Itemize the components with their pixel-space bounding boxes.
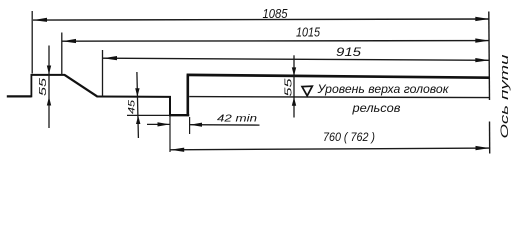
ramp [65,75,97,96]
dim 42 min left arrow [147,123,170,125]
svg-text:Уровень верха головок: Уровень верха головок [316,84,449,96]
svg-text:рельсов: рельсов [351,103,400,115]
dim 55 right vertical [293,55,295,117]
baseline middle segment [97,96,172,98]
baseline left segment [7,95,32,97]
dim 45 vertical [137,72,139,138]
dim line 1085 [33,19,489,20]
svg-text:42 min: 42 min [217,113,257,125]
svg-text:1015: 1015 [296,26,320,40]
dim line 915 [103,58,489,60]
svg-text:45: 45 [127,99,137,114]
svg-text:760 ( 762 ): 760 ( 762 ) [323,130,375,144]
svg-text:Ось пути: Ось пути [499,55,511,139]
witness line 45 [127,114,170,116]
svg-text:55: 55 [283,78,295,96]
svg-text:55: 55 [37,78,49,96]
axis line lower [489,122,491,154]
notch left edge [169,96,171,116]
witness line 42 min right [189,117,191,134]
step left edge [30,74,32,97]
rail head level line [189,97,489,98]
dim line 760 [170,148,489,150]
svg-text:915: 915 [336,45,361,59]
rail level mark triangle [302,86,312,96]
axis line upper [488,12,491,101]
step top [31,74,66,76]
platform wall [187,75,190,117]
extension line 1015 [61,33,63,76]
svg-text:1085: 1085 [263,7,288,21]
platform top [187,75,490,78]
extension line 1085 [31,11,33,74]
dim line 1015 [62,40,489,43]
dim 55 left vertical [48,46,50,129]
extension line 915 [102,50,104,97]
witness line 760 left [169,116,171,152]
notch bottom [169,114,189,116]
dim 42 min right arrow [190,124,260,126]
